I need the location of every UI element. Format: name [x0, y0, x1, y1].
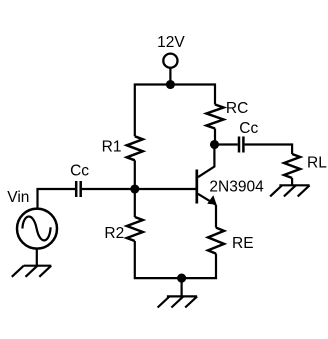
ground (bottom center)	[158, 296, 198, 307]
wire emitter down to RE	[215, 205, 217, 228]
svg-text:R2: R2	[104, 225, 124, 242]
wire 12V stub	[169, 68, 171, 85]
power terminal 12V	[163, 54, 177, 68]
svg-text:Vin: Vin	[7, 189, 29, 206]
wire Vin source to input capacitor	[38, 189, 76, 209]
wire base node to transistor base	[135, 188, 197, 190]
svg-text:R1: R1	[102, 139, 122, 156]
capacitor Cc (input)	[76, 181, 81, 197]
node emitter-ground junction dot	[177, 274, 186, 283]
svg-text:RE: RE	[232, 235, 254, 252]
svg-text:12V: 12V	[157, 34, 185, 51]
svg-text:2N3904: 2N3904	[209, 179, 264, 196]
resistor RC	[207, 105, 224, 129]
wire input capacitor to base node	[82, 188, 135, 190]
svg-text:Cc: Cc	[239, 120, 258, 137]
transistor Q1 base bar	[195, 170, 198, 204]
wire top rail	[135, 85, 215, 137]
wire collector node down to transistor	[198, 145, 215, 178]
node collector junction dot	[210, 140, 219, 149]
capacitor Cc (output)	[239, 137, 243, 153]
resistor RL	[284, 154, 300, 178]
node base junction dot	[130, 184, 139, 193]
wire RC bottom to collector node	[214, 129, 216, 145]
source Vin circle	[17, 209, 57, 249]
wire capacitor to RL	[245, 145, 293, 155]
ground (below RL)	[270, 185, 310, 196]
resistor R1	[127, 136, 143, 160]
wire R2 bottom to ground rail	[135, 241, 216, 278]
wire R1 bottom to base node	[134, 160, 136, 189]
ground (below Vin)	[12, 266, 51, 277]
node VCC junction dot	[166, 80, 175, 89]
svg-text:RC: RC	[226, 100, 248, 117]
transistor Q1 emitter arrow	[207, 195, 216, 204]
resistor R2	[127, 217, 143, 241]
resistor RE	[208, 228, 224, 254]
wire ground stub	[181, 278, 183, 296]
source Vin sine wave	[22, 216, 50, 240]
svg-text:Cc: Cc	[70, 162, 89, 179]
wire Vin source to ground	[36, 249, 38, 266]
wire base node down to R2	[134, 189, 136, 217]
svg-text:RL: RL	[307, 154, 327, 171]
wire RL to ground	[291, 178, 293, 185]
transistor Q1 emitter line	[198, 194, 216, 205]
wire output from collector node	[215, 143, 238, 145]
